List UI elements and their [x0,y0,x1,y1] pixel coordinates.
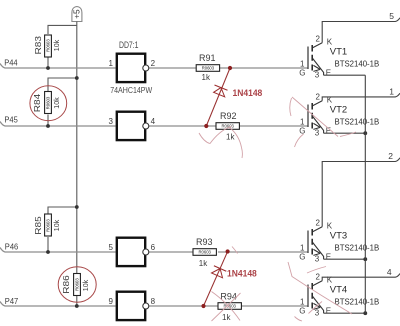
wire R84 top branch [48,78,77,92]
svg-text:G: G [299,253,305,262]
annotation scribble near R92 [199,126,242,158]
wire VT1 emitter to rail [324,74,366,76]
DD7.1 inverter bubble [143,65,149,71]
svg-text:6: 6 [151,243,156,252]
svg-text:P45: P45 [4,114,18,124]
DD7.4 body box [117,292,145,320]
svg-text:R85: R85 [33,216,43,235]
wire VT4 collector to net 4 [322,274,400,281]
resistor R83 [33,35,61,57]
VD1 cathode junction dot [228,66,232,70]
svg-text:4: 4 [151,117,156,126]
svg-text:R0603: R0603 [199,250,212,255]
svg-text:9: 9 [108,297,113,306]
VT4 gate bar [307,285,309,308]
VD1 anode triangle [214,88,225,97]
VT4 emitter arrow [313,303,320,309]
svg-text:VT2: VT2 [330,105,347,116]
VT3 collector lead [312,227,322,232]
svg-text:R94: R94 [220,291,237,301]
transistor VT2 [299,92,379,137]
transistor VT1 [299,34,379,79]
svg-text:R93: R93 [196,237,213,247]
svg-text:74AHC14PW: 74AHC14PW [110,85,153,95]
svg-text:4: 4 [387,267,392,277]
svg-text:BTS2140-1B: BTS2140-1B [335,117,380,127]
svg-text:2: 2 [316,92,321,101]
DD7.1 body box [117,54,145,82]
diode VD2 1N4148 [201,249,229,308]
svg-text:10k: 10k [54,39,61,51]
svg-text:K: K [327,222,333,231]
resistor R86 [61,274,90,296]
wire VT4 emitter to rail [324,312,366,314]
svg-text:1: 1 [108,59,113,68]
annotation scribble around VT4 [288,262,352,321]
junction dot P46/R85 [46,250,50,254]
VD1 cathode bar [215,85,228,90]
VT4 emitter lead [312,296,323,313]
wire R84 bottom lead [47,115,49,127]
VD1 anode junction dot [204,124,208,128]
svg-text:VT4: VT4 [330,285,347,296]
VT1 emitter lead [312,58,323,75]
VT1 emitter arrow [313,65,320,71]
svg-text:1k: 1k [202,73,211,82]
svg-text:1k: 1k [222,313,231,322]
svg-text:8: 8 [151,297,156,306]
DD7.3 inverter bubble [143,249,149,255]
resistor R85 [33,214,61,236]
svg-text:3: 3 [315,309,320,318]
wire VT2 emitter to rail [324,132,366,134]
wire VT3 emitter to rail [324,258,366,260]
DD7.2 inverter bubble [143,123,149,129]
VD2 cathode bar [214,266,226,272]
svg-text:R86: R86 [61,275,71,294]
node P46 wire row [0,248,308,253]
svg-text:BTS2140-1B: BTS2140-1B [335,243,380,253]
VT2 collector lead [312,101,322,106]
annotation scribble around VT2 [290,97,356,147]
svg-text:E: E [326,68,331,77]
inverter gate DD7.3 pins 5-6 [108,238,155,266]
node P45 wire row [0,122,308,127]
svg-text:G: G [299,69,305,78]
junction dot P47/R86 [75,304,79,308]
VD1 diode body line [206,68,230,126]
transistor VT4 [299,272,379,317]
junction dot VT4 emitter [363,311,367,315]
VT3 gate bar [307,231,309,254]
diode VD1 1N4148 [204,66,232,128]
resistor R91 [196,53,219,82]
junction dot P45/R84 [46,124,50,128]
svg-text:2: 2 [316,218,321,227]
annotation scribble X over R94 [212,247,241,322]
svg-text:10k: 10k [54,219,61,231]
svg-text:2: 2 [151,59,156,68]
wire R85 bottom lead [47,237,49,252]
svg-text:R0603: R0603 [46,219,51,232]
svg-text:3: 3 [315,129,320,138]
svg-text:R0603: R0603 [46,39,51,52]
node P44 wire row [0,64,308,69]
svg-text:1: 1 [300,297,305,306]
svg-text:1N4148: 1N4148 [227,269,257,279]
svg-text:2: 2 [316,34,321,43]
svg-text:E: E [326,306,331,315]
VT3 emitter arrow [313,249,320,255]
resistor R92 [216,111,239,142]
transistor VT3 [299,218,379,263]
svg-text:P44: P44 [4,57,18,67]
junction dot rail/R84 [75,76,79,80]
svg-text:1: 1 [300,59,305,68]
svg-text:10k: 10k [54,97,61,109]
power +5 symbol [72,7,82,22]
svg-text:3: 3 [315,71,320,80]
svg-text:1: 1 [300,117,305,126]
wire VT3 collector to net 2 [322,158,400,227]
VD2 diode body line [204,252,228,307]
wire R83 bottom lead [47,57,49,68]
svg-text:5: 5 [389,11,394,21]
svg-text:VT1: VT1 [330,47,347,58]
node P47 wire row [0,302,308,307]
wire VT1 collector to net 5 [322,18,400,43]
svg-text:R91: R91 [199,53,216,63]
svg-text:1: 1 [389,87,394,97]
svg-text:VT3: VT3 [330,231,347,242]
svg-text:E: E [326,126,331,135]
svg-text:1: 1 [300,243,305,252]
svg-text:K: K [327,38,333,47]
resistor R94 [218,291,241,322]
svg-text:2: 2 [316,272,321,281]
svg-text:DD7:1: DD7:1 [119,40,139,50]
VT4 collector lead [312,281,322,286]
svg-text:R0603: R0603 [202,66,215,71]
svg-text:P47: P47 [5,296,19,306]
wire +5 rail [76,22,78,307]
svg-text:2: 2 [388,151,393,161]
VT2 gate bar [307,105,309,128]
VD2 cathode junction dot [226,249,230,253]
VT2 emitter arrow [313,123,320,129]
svg-text:BTS2140-1B: BTS2140-1B [335,297,380,307]
svg-text:1k: 1k [199,259,208,268]
svg-text:P46: P46 [5,242,19,252]
svg-text:3: 3 [108,117,113,126]
annotation red circle around R84 [30,86,67,121]
VT1 collector lead [312,43,322,48]
inverter gate DD7.1 pins 1-2 [108,54,155,82]
VD2 anode junction dot [201,304,205,308]
svg-text:R84: R84 [32,93,42,112]
DD7.2 body box [117,112,145,140]
svg-text:5: 5 [108,243,113,252]
DD7.4 inverter bubble [143,303,149,309]
svg-text:G: G [299,127,305,136]
junction dot rail/R85 [75,205,79,209]
svg-text:R92: R92 [220,111,237,121]
svg-text:BTS2140-1B: BTS2140-1B [335,59,380,69]
wire emitter rail [364,75,366,313]
VT1 gate bar [307,47,309,70]
wire R83 top branch [48,25,77,34]
VD2 anode triangle [212,269,223,278]
DD7.3 body box [117,238,145,266]
VT2 channel bar [311,103,313,129]
junction dot VT2 emitter [363,131,367,135]
svg-text:1k: 1k [226,133,235,142]
svg-text:+5: +5 [72,9,81,19]
wire VT2 collector to net 1 [322,93,400,101]
annotation red circle around R86 [58,267,96,302]
resistor R84 [32,92,61,114]
junction dot P44/R83 [46,66,50,70]
junction dot VT3 emitter [363,257,367,261]
svg-text:10k: 10k [83,279,90,291]
svg-text:1N4148: 1N4148 [233,88,263,98]
inverter gate DD7.4 pins 9-8 [108,292,155,320]
svg-text:E: E [326,252,331,261]
inverter gate DD7.2 pins 3-4 [108,112,155,140]
VT3 emitter lead [312,242,323,259]
VT3 channel bar [311,229,313,255]
svg-text:3: 3 [315,255,320,264]
wire R85 top branch [48,207,77,214]
resistor R93 [193,237,216,268]
svg-text:R0603: R0603 [46,96,51,109]
svg-text:R83: R83 [33,36,43,55]
svg-text:G: G [299,307,305,316]
VT1 channel bar [311,45,313,71]
VT4 channel bar [311,283,313,309]
svg-text:R0603: R0603 [75,278,80,291]
VT2 emitter lead [312,116,323,133]
